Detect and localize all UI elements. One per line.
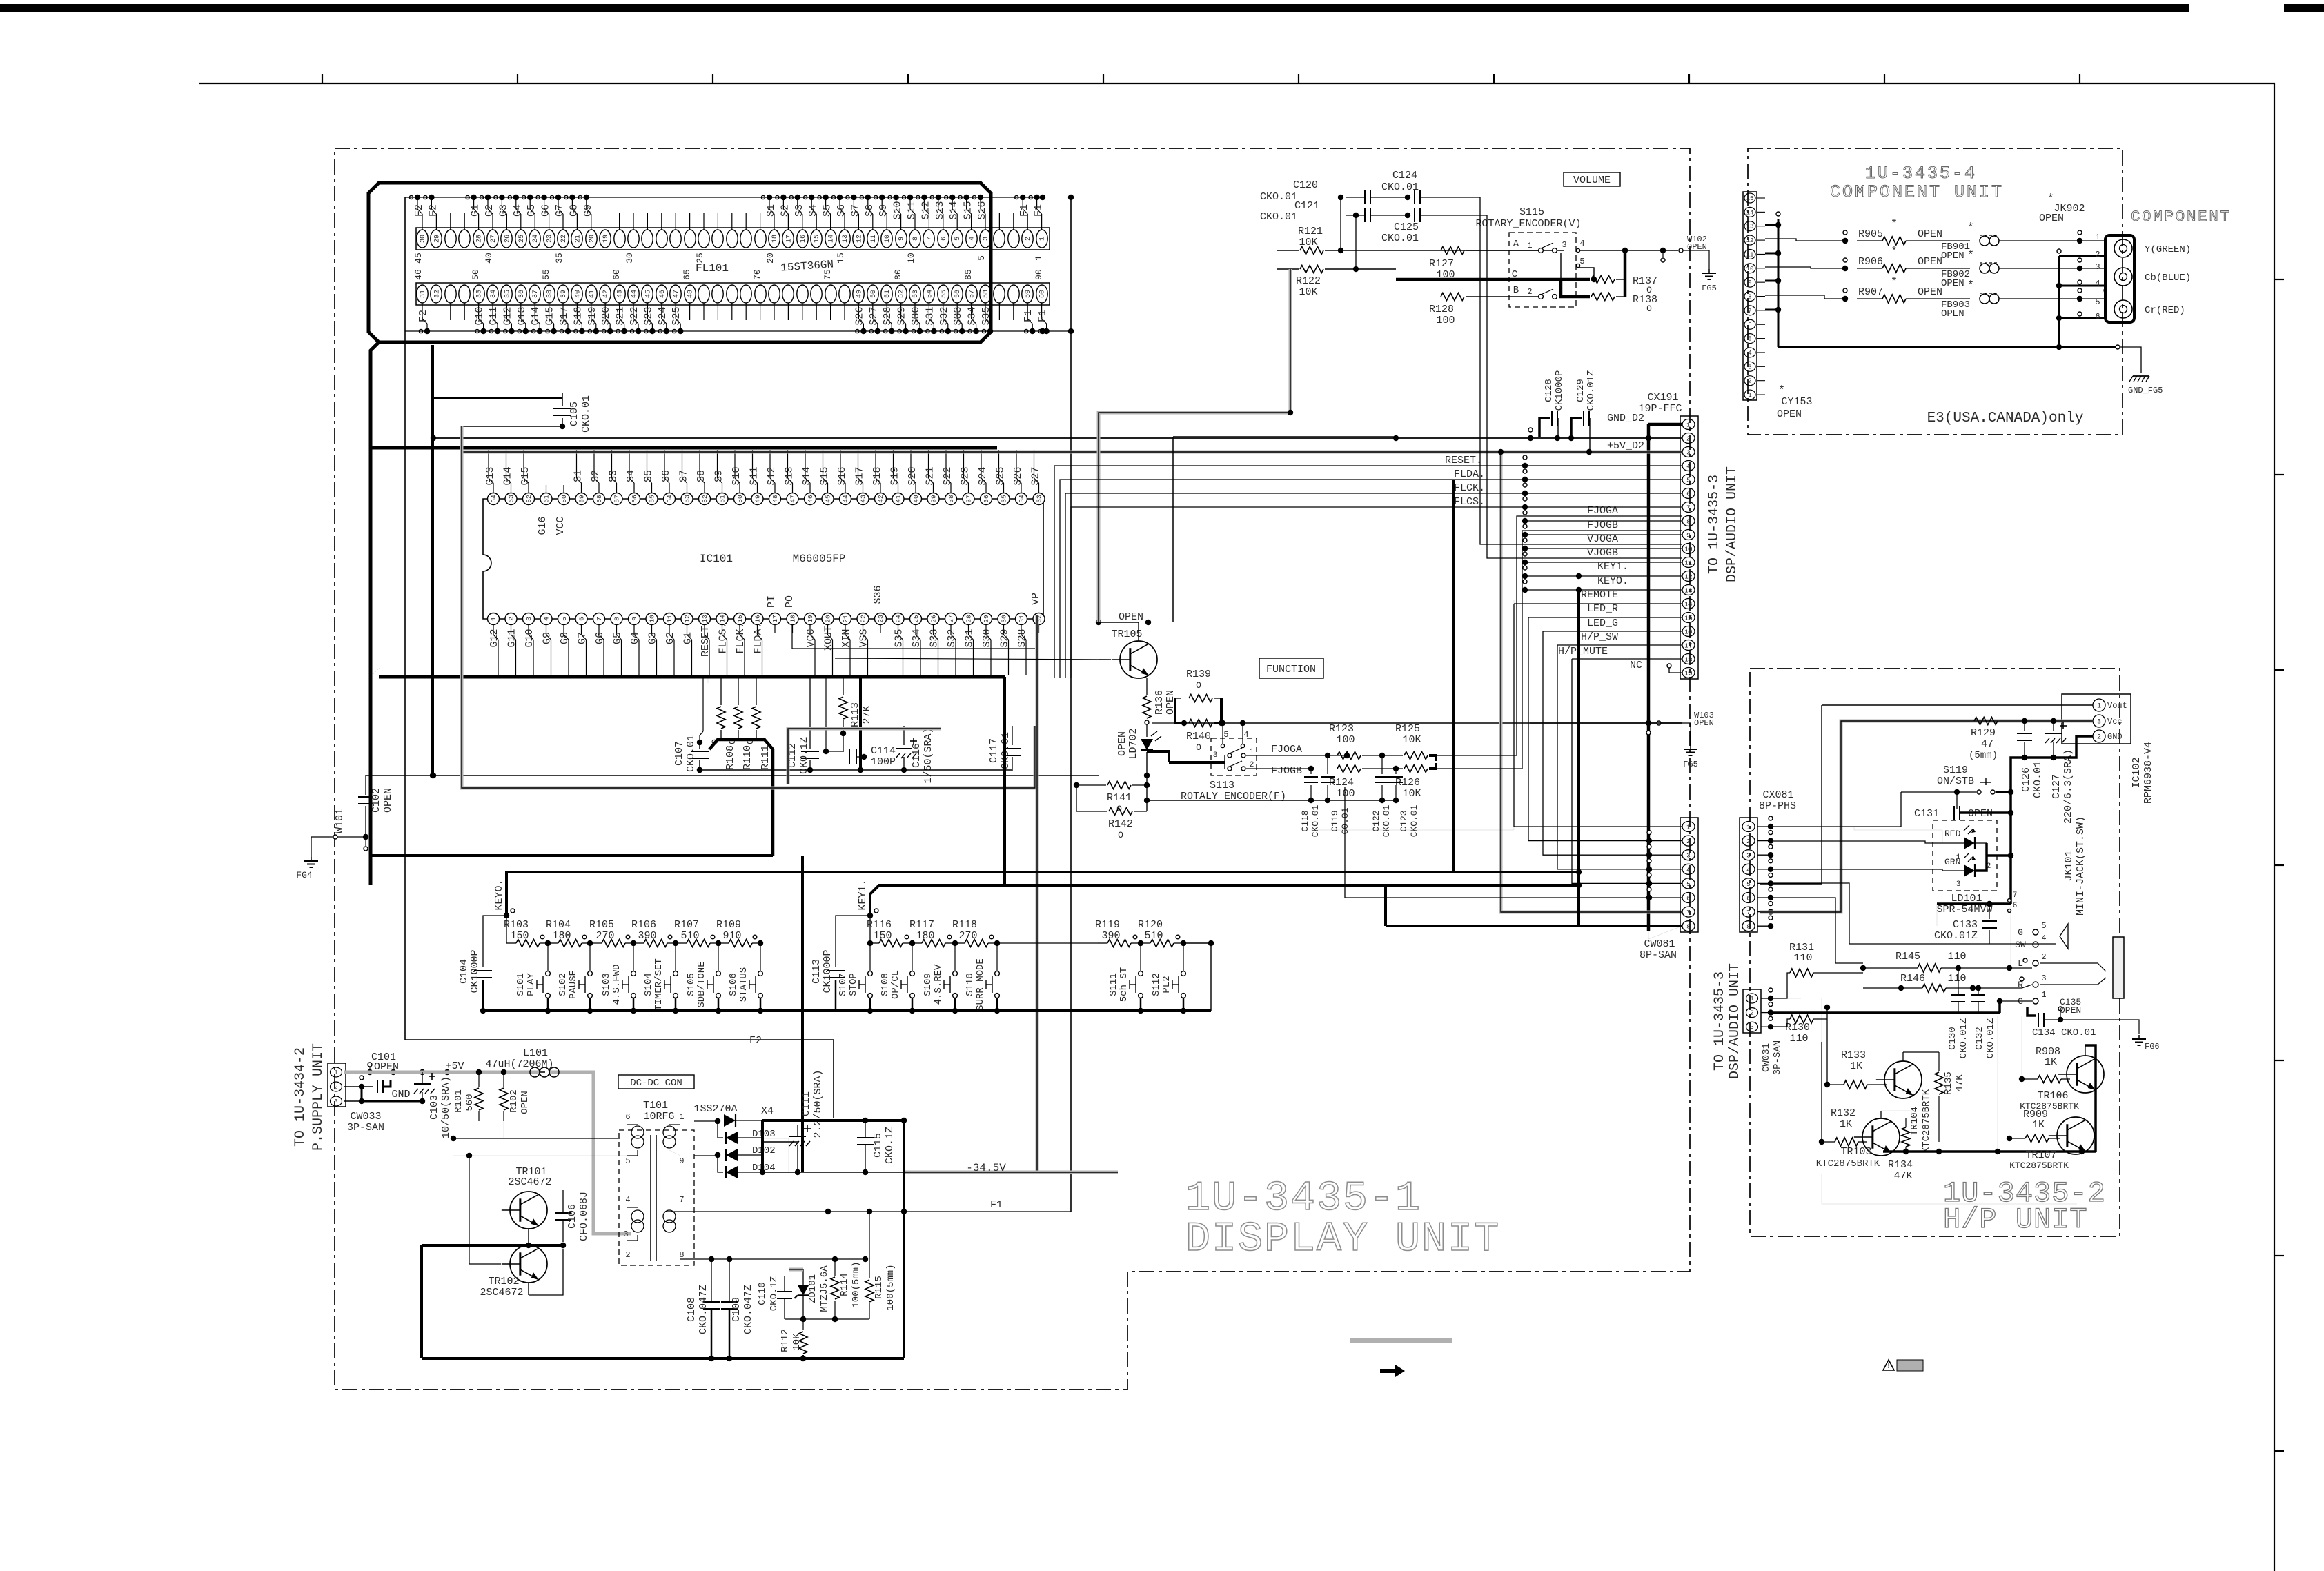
svg-text:FG4: FG4 (296, 870, 313, 880)
svg-text:RESET.: RESET. (1445, 455, 1482, 466)
svg-text:S106: S106 (728, 973, 739, 996)
ruler tick top (907, 74, 909, 83)
IC101 pin 10 (646, 613, 658, 625)
svg-text:F2: F2 (749, 1035, 762, 1047)
svg-text:R137: R137 (1633, 275, 1657, 287)
capacitor C112 (809, 678, 811, 749)
thick vertical bus x1163 (801, 856, 804, 1172)
ferrite bead FB902 (1980, 264, 1989, 273)
FL101 pin oval lower 56 (952, 285, 963, 303)
svg-text:53: 53 (912, 290, 920, 298)
capacitor C107 (699, 742, 700, 749)
FL101 lower pin wire G11 (492, 303, 493, 319)
svg-text:26: 26 (930, 615, 938, 623)
FL101 lower pin wire S24 (661, 303, 662, 319)
svg-text:S115: S115 (1519, 206, 1544, 218)
FL101 upper pin wire G6 (549, 214, 550, 230)
wire TR102 base (469, 1263, 501, 1265)
svg-text:FG6: FG6 (2145, 1042, 2160, 1051)
wire diode net to C111 (762, 1141, 798, 1143)
FL101 pin oval lower 57 (966, 285, 977, 303)
svg-text:SURR MODE: SURR MODE (975, 958, 986, 1011)
svg-text:CW081: CW081 (1644, 938, 1675, 950)
svg-text:CKO.01: CKO.01 (1381, 233, 1419, 244)
capacitor C128 (1539, 418, 1550, 437)
ruler tick top (2079, 74, 2080, 83)
svg-text:47K: 47K (1954, 1074, 1965, 1092)
FL101 upper pin stub (661, 213, 662, 230)
svg-text:CKO.047Z: CKO.047Z (742, 1285, 754, 1334)
wire +5V_D2 gray (462, 451, 1682, 454)
svg-text:R142: R142 (1108, 818, 1133, 830)
svg-text:PO: PO (784, 595, 796, 608)
CX081 wire to S119 (1771, 792, 1901, 827)
svg-text:50: 50 (471, 269, 481, 280)
svg-text:5: 5 (625, 1156, 630, 1166)
GND_FG5 ground (2120, 347, 2141, 373)
IC101 pin 29 (981, 613, 992, 625)
svg-text:R105: R105 (589, 919, 614, 931)
wire +5V from CW033 (344, 1071, 545, 1073)
JK101 sleeve shapes (2060, 924, 2068, 949)
svg-text:CKO.01Z: CKO.01Z (1958, 1018, 1969, 1059)
transistor TR103 (1862, 1118, 1900, 1156)
svg-text:80: 80 (893, 269, 903, 280)
IC IC101 body (483, 499, 1043, 619)
svg-text:*: * (1967, 221, 1974, 235)
FL101 pin oval upper 10 (881, 230, 892, 248)
FL101 lower pin wire S31 (928, 303, 929, 319)
svg-text:27: 27 (947, 615, 955, 622)
svg-text:VP: VP (1030, 593, 1042, 605)
IC102 block (2062, 694, 2131, 744)
FL101 pin oval lower 60 (1036, 285, 1047, 303)
svg-text:R128: R128 (1429, 304, 1454, 315)
svg-text:9: 9 (898, 237, 906, 241)
svg-text:F2: F2 (413, 204, 425, 217)
svg-text:54: 54 (926, 290, 934, 298)
svg-text:F1: F1 (1037, 310, 1049, 322)
svg-text:(5mm): (5mm) (1969, 750, 1998, 761)
svg-text:S1: S1 (765, 204, 777, 217)
svg-text:28: 28 (965, 615, 973, 623)
FL101 pin oval lower 39 (558, 285, 569, 303)
FL101 lower pin wire S25 (675, 303, 676, 319)
svg-text:50: 50 (870, 290, 878, 298)
svg-text:G15: G15 (520, 466, 531, 485)
svg-text:90: 90 (1034, 269, 1044, 280)
svg-text:46: 46 (413, 269, 424, 280)
FL101 lower bus wire (405, 330, 1043, 332)
svg-text:14: 14 (1684, 601, 1693, 609)
svg-text:KEYO.: KEYO. (493, 879, 505, 910)
ruler tick top (712, 74, 713, 83)
svg-text:S111: S111 (1108, 973, 1119, 996)
FL101 pin oval lower nc (755, 285, 766, 303)
svg-text:R122: R122 (1296, 275, 1321, 287)
junction F1 top (1040, 195, 1045, 200)
svg-text:S108: S108 (880, 973, 891, 996)
IC101 pin 58 (593, 493, 605, 505)
svg-text:2: 2 (2095, 250, 2100, 259)
svg-text:19: 19 (807, 615, 814, 623)
svg-text:C134 CKO.01: C134 CKO.01 (2032, 1027, 2096, 1038)
FL101 lower pin stub (731, 303, 733, 320)
svg-text:OPEN: OPEN (1116, 731, 1128, 756)
svg-text:S3: S3 (608, 470, 620, 482)
svg-text:S33: S33 (952, 306, 964, 325)
wire volume to W102 (1580, 250, 1678, 251)
CW081 pin8 thick wire (1386, 925, 1682, 927)
svg-text:5: 5 (2041, 921, 2046, 931)
FL101 pin oval lower nc (811, 285, 822, 303)
ruler tick top (322, 74, 323, 83)
svg-text:5: 5 (1223, 730, 1228, 740)
resistor R137 (1591, 276, 1615, 284)
resistor R907 (1842, 296, 1848, 302)
svg-text:10: 10 (1746, 266, 1754, 273)
svg-text:W101: W101 (334, 809, 346, 833)
svg-text:55: 55 (941, 290, 948, 298)
wire XIN node (825, 678, 827, 751)
IC101 pin 41 (892, 493, 904, 505)
svg-text:25: 25 (912, 615, 920, 623)
FL101 lower pin wire S21 (619, 303, 620, 319)
svg-text:3: 3 (623, 1229, 628, 1239)
FL101 pin oval upper nc (445, 230, 456, 248)
svg-text:R104: R104 (546, 919, 571, 931)
svg-text:F2: F2 (427, 204, 439, 217)
FL101 upper pin wire G2 (492, 214, 493, 230)
svg-text:49: 49 (856, 290, 863, 298)
svg-text:20: 20 (825, 615, 832, 623)
svg-text:5ch ST: 5ch ST (1119, 967, 1130, 1002)
FL101 pin oval upper 17 (782, 230, 794, 248)
svg-text:110: 110 (1947, 973, 1966, 985)
svg-text:62: 62 (525, 495, 533, 503)
svg-text:R906: R906 (1858, 256, 1883, 268)
RCA jack Cr(RED) (2114, 300, 2132, 318)
svg-text:3: 3 (2095, 262, 2100, 272)
svg-text:C108: C108 (686, 1297, 698, 1322)
IC101 pin 46 (805, 493, 816, 505)
IC101 pin 13 (699, 613, 711, 625)
T101 secondary top winding (663, 1126, 676, 1138)
FL101 upper pin wire S7 (858, 214, 859, 230)
FL101 upper pin wire G4 (520, 214, 522, 230)
svg-text:41: 41 (589, 290, 596, 298)
svg-text:2SC4672: 2SC4672 (508, 1176, 551, 1188)
resistor R111 (756, 678, 757, 705)
svg-text:S9: S9 (878, 204, 889, 217)
svg-text:S18: S18 (871, 466, 883, 485)
svg-text:-34.5V: -34.5V (966, 1162, 1006, 1174)
FL101 lower pin wire S29 (900, 303, 902, 319)
svg-text:40: 40 (574, 290, 582, 298)
svg-text:FLCK.: FLCK. (735, 622, 747, 653)
vacuum fluorescent display FL101 outline (368, 183, 991, 342)
switch S110 SURR MODE (996, 943, 998, 971)
switch S108 OP/CL (912, 943, 913, 971)
svg-text:CKO.01: CKO.01 (2032, 761, 2044, 798)
FL101 lower pin stub (703, 303, 705, 320)
svg-text:R141: R141 (1107, 792, 1132, 804)
FL101 pin oval lower 52 (896, 285, 907, 303)
FL101 upper pin stub (675, 213, 676, 230)
svg-text:*: * (1891, 218, 1898, 231)
svg-text:R106: R106 (631, 919, 656, 931)
svg-text:36: 36 (518, 290, 526, 298)
svg-text:S23: S23 (642, 306, 654, 325)
svg-text:5: 5 (1686, 477, 1691, 484)
diode D101 (694, 1120, 718, 1122)
ruler tick right (2274, 1255, 2284, 1256)
RCA jack block JK902 (2105, 235, 2134, 322)
FL101 pin oval upper nc (628, 230, 639, 248)
svg-text:DC-DC CON: DC-DC CON (630, 1078, 682, 1089)
VJOGB wire (1456, 215, 1682, 558)
svg-text:C106: C106 (567, 1204, 578, 1229)
FL101 upper pin wire G8 (576, 214, 578, 230)
IC101 pin 1 (488, 613, 500, 625)
svg-text:S3: S3 (794, 204, 805, 217)
svg-text:FG5: FG5 (1702, 284, 1717, 293)
FL101 upper pin stub (1013, 213, 1014, 230)
IC101 pin 48 (769, 493, 781, 505)
capacitor C110 (777, 1291, 792, 1292)
svg-text:19P-FFC: 19P-FFC (1638, 403, 1682, 415)
IC102 pin Vout (2093, 699, 2105, 711)
FL101 pin oval lower nc (740, 285, 751, 303)
FJOGB wire to CX191 (1436, 531, 1682, 769)
svg-text:S19: S19 (587, 306, 598, 325)
FL101 lower pin stub (450, 303, 451, 320)
FL101 pin oval upper nc (614, 230, 625, 248)
svg-text:S15: S15 (963, 201, 974, 219)
svg-text:VJOGB: VJOGB (1587, 547, 1618, 559)
svg-text:FG5: FG5 (1683, 760, 1698, 769)
CX081 pin wires (1757, 826, 1771, 827)
svg-text:ROTARY_ENCODER(V): ROTARY_ENCODER(V) (1475, 218, 1581, 230)
svg-text:CKO.1Z: CKO.1Z (769, 1276, 780, 1311)
svg-text:15: 15 (836, 253, 846, 264)
resistor R142 (1109, 808, 1132, 816)
FL101 pin oval lower nc (1008, 285, 1019, 303)
svg-text:R905: R905 (1858, 228, 1883, 240)
IC101 pin 9 (629, 613, 640, 625)
wire S119 left (1956, 792, 1958, 809)
svg-text:70: 70 (752, 269, 762, 280)
FL101 pin oval upper nc (994, 230, 1005, 248)
FL101 upper pin band (416, 228, 1050, 250)
FL101 pin oval upper nc (755, 230, 766, 248)
svg-text:STATUS: STATUS (738, 967, 749, 1002)
wire TR101 emitter (528, 1229, 529, 1245)
CX081 wire pin6 (1771, 898, 1863, 963)
KEY1 bus riser (1576, 573, 1582, 579)
key bus bottom 2 (825, 1009, 1211, 1012)
resistor R114 (831, 1277, 839, 1299)
IC101 pin 35 (998, 493, 1010, 505)
transistor TR106 (2067, 1056, 2104, 1093)
svg-text:CKO.01: CKO.01 (1310, 804, 1321, 837)
svg-text:C122: C122 (1371, 810, 1381, 831)
wire Vout (1822, 704, 2093, 706)
thick wire diode out (761, 1120, 764, 1172)
wire nets under IC101 (366, 775, 1099, 776)
svg-text:23: 23 (877, 615, 885, 623)
svg-text:2: 2 (1686, 435, 1691, 443)
FL101 upper pin wire S10 (900, 214, 902, 230)
FL101 pin oval upper 22 (558, 230, 569, 248)
IC101 pin 17 (769, 613, 781, 625)
svg-text:R130: R130 (1785, 1022, 1810, 1034)
wire hp bottom loop (1856, 1142, 2077, 1204)
switch S103 4.S.FWD (633, 943, 634, 971)
diode D103 (718, 1121, 723, 1138)
thick bus IC101 bottom (371, 667, 380, 677)
IC101 pin 21 (840, 613, 851, 625)
svg-text:G3: G3 (498, 204, 509, 217)
svg-text:2: 2 (334, 1084, 337, 1091)
svg-text:C104: C104 (458, 959, 470, 984)
svg-text:13: 13 (1746, 224, 1754, 230)
svg-text:DSP/AUDIO UNIT: DSP/AUDIO UNIT (1724, 466, 1740, 582)
svg-text:S31: S31 (924, 306, 936, 325)
svg-text:CK1000P: CK1000P (822, 949, 834, 993)
CX191 signal GND_D2 wire (1648, 423, 1682, 426)
svg-text:G6: G6 (540, 204, 552, 217)
svg-text:1: 1 (2097, 703, 2101, 711)
svg-text:56: 56 (954, 290, 962, 298)
page top black bar (0, 4, 2189, 12)
svg-text:Cb(BLUE): Cb(BLUE) (2145, 273, 2191, 284)
svg-text:S105: S105 (686, 973, 697, 996)
FL101 upper pin wire F2 (435, 214, 437, 230)
capacitor C126 (2024, 721, 2025, 731)
svg-text:VSS: VSS (858, 629, 870, 647)
svg-text:*: * (1891, 246, 1898, 259)
svg-text:IC102: IC102 (2131, 757, 2143, 788)
LED block LD101 dashed box (1933, 820, 1997, 891)
svg-text:GRN: GRN (1944, 857, 1960, 867)
IC101 pin 56 (629, 493, 640, 505)
svg-text:GND_D2: GND_D2 (1607, 413, 1644, 424)
svg-text:S113: S113 (1210, 780, 1234, 791)
svg-text:10RFG: 10RFG (643, 1111, 674, 1123)
svg-text:17: 17 (771, 615, 779, 622)
TR105 wires (1099, 622, 1139, 623)
resistor R102 (500, 1088, 508, 1110)
svg-text:KTC2875BRTK: KTC2875BRTK (2009, 1160, 2069, 1171)
svg-text:SW: SW (2015, 940, 2026, 950)
resistor R906 (1842, 266, 1848, 271)
svg-text:22: 22 (860, 615, 867, 623)
svg-text:STOP: STOP (848, 973, 859, 996)
FL101 pin oval upper 12 (853, 230, 864, 248)
svg-text:61: 61 (543, 495, 551, 503)
svg-text:R117: R117 (909, 919, 934, 931)
svg-text:2: 2 (625, 1250, 630, 1260)
wire staircase to CW081 (1514, 604, 1682, 827)
IC101 pin 37 (963, 493, 974, 505)
svg-text:10K: 10K (1402, 788, 1421, 800)
svg-text:1: 1 (334, 1069, 337, 1076)
svg-text:51: 51 (884, 290, 892, 298)
svg-text:S9: S9 (713, 470, 725, 482)
svg-text:R118: R118 (952, 919, 977, 931)
svg-text:C102: C102 (371, 788, 382, 813)
svg-text:*: * (1891, 276, 1898, 289)
FL101 pin oval lower 40 (571, 285, 582, 303)
switch S104 TIMER/SET (675, 943, 676, 971)
svg-text:S24: S24 (977, 466, 989, 485)
svg-text:6: 6 (625, 1112, 630, 1122)
svg-text:R114: R114 (839, 1273, 850, 1296)
IC101 pin 7 (593, 613, 605, 625)
svg-text:C110: C110 (757, 1282, 768, 1305)
IC101 pin 22 (857, 613, 869, 625)
svg-text:6: 6 (941, 237, 948, 241)
FL101 upper pin stub (464, 213, 465, 230)
capacitor C108 (703, 1301, 720, 1303)
svg-text:S24: S24 (657, 306, 669, 325)
IC101 pin 52 (699, 493, 711, 505)
svg-text:47uH(7206M): 47uH(7206M) (485, 1058, 553, 1070)
svg-text:57: 57 (969, 290, 976, 298)
display unit border 1U-3435-1 (335, 148, 1690, 1390)
svg-text:15: 15 (736, 615, 744, 623)
FL101 upper pin wire S13 (943, 214, 944, 230)
svg-text:CK1000P: CK1000P (1554, 370, 1565, 411)
svg-text:20: 20 (765, 253, 776, 264)
svg-text:58: 58 (983, 290, 990, 298)
svg-text:ON/STB: ON/STB (1937, 775, 1974, 787)
svg-text:43: 43 (617, 290, 624, 298)
svg-text:S27: S27 (868, 306, 880, 325)
svg-text:18: 18 (771, 235, 779, 243)
wire pin3 (344, 1100, 362, 1102)
FL101 lower pin wire S26 (858, 303, 859, 319)
svg-text:LED_R: LED_R (1587, 603, 1618, 615)
svg-text:25: 25 (518, 235, 526, 243)
capacitor C111 electrolytic (789, 1136, 806, 1137)
svg-text:14: 14 (719, 615, 727, 623)
svg-text:S26: S26 (1012, 466, 1024, 485)
svg-text:OPEN: OPEN (520, 1091, 531, 1114)
svg-text:!: ! (1886, 1361, 1891, 1371)
W101 link (333, 835, 337, 839)
svg-text:OPEN: OPEN (1941, 308, 1964, 319)
svg-text:TO 1U-3434-2: TO 1U-3434-2 (293, 1047, 308, 1147)
FL101 pin oval lower nc (459, 285, 470, 303)
svg-text:S10: S10 (892, 201, 904, 219)
svg-text:R119: R119 (1095, 919, 1120, 931)
svg-text:PL2: PL2 (1161, 976, 1172, 993)
svg-text:S27: S27 (1030, 466, 1042, 485)
wire pin8 bus (680, 1258, 865, 1260)
svg-text:1K: 1K (2045, 1056, 2057, 1068)
svg-text:G2: G2 (484, 204, 495, 217)
capacitor C124 (1414, 190, 1415, 204)
svg-text:47K: 47K (1893, 1170, 1912, 1182)
FL101 pin oval upper 13 (839, 230, 850, 248)
svg-text:Cr(RED): Cr(RED) (2145, 305, 2185, 316)
svg-text:12: 12 (856, 235, 863, 243)
bottom gray mark (1350, 1338, 1452, 1343)
ferrite bead FB903 (1980, 294, 1989, 304)
svg-text:12: 12 (1746, 237, 1754, 244)
